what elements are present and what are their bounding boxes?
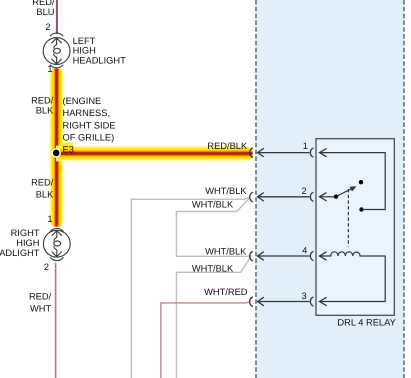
- svg-text:2: 2: [44, 262, 49, 272]
- svg-text:RIGHT SIDE: RIGHT SIDE: [63, 120, 116, 130]
- svg-text:LEFT: LEFT: [73, 36, 96, 46]
- svg-text:3: 3: [302, 291, 307, 301]
- svg-text:RED/: RED/: [31, 178, 54, 188]
- svg-text:WHT/RED: WHT/RED: [204, 287, 248, 297]
- svg-text:HIGH: HIGH: [73, 46, 96, 56]
- svg-text:HIGH: HIGH: [16, 238, 39, 248]
- svg-text:BLK: BLK: [36, 106, 54, 116]
- svg-text:WHT/BLK: WHT/BLK: [205, 186, 247, 196]
- svg-text:1: 1: [47, 214, 52, 224]
- svg-text:RED/: RED/: [31, 96, 54, 106]
- svg-text:2: 2: [302, 186, 307, 196]
- svg-text:2: 2: [46, 22, 51, 32]
- svg-text:1: 1: [303, 141, 308, 151]
- svg-text:1: 1: [47, 64, 52, 74]
- svg-text:BLK: BLK: [36, 189, 54, 199]
- svg-text:WHT/BLK: WHT/BLK: [205, 246, 247, 256]
- svg-text:HARNESS,: HARNESS,: [63, 108, 111, 118]
- svg-text:RIGHT: RIGHT: [11, 228, 40, 238]
- svg-text:OF GRILLE): OF GRILLE): [63, 133, 115, 143]
- svg-text:RED/: RED/: [29, 292, 52, 302]
- svg-text:HEADLIGHT: HEADLIGHT: [0, 248, 40, 258]
- svg-text:WHT/BLK: WHT/BLK: [192, 200, 234, 210]
- svg-text:RED/BLK: RED/BLK: [207, 141, 248, 151]
- svg-text:E3: E3: [63, 144, 74, 154]
- svg-text:WHT: WHT: [30, 304, 51, 314]
- svg-text:4: 4: [302, 245, 307, 255]
- svg-text:WHT/BLK: WHT/BLK: [192, 264, 234, 274]
- svg-text:HEADLIGHT: HEADLIGHT: [73, 56, 127, 66]
- svg-text:DRL 4 RELAY: DRL 4 RELAY: [337, 317, 395, 327]
- svg-text:(ENGINE: (ENGINE: [63, 96, 102, 106]
- svg-text:BLU: BLU: [36, 7, 54, 17]
